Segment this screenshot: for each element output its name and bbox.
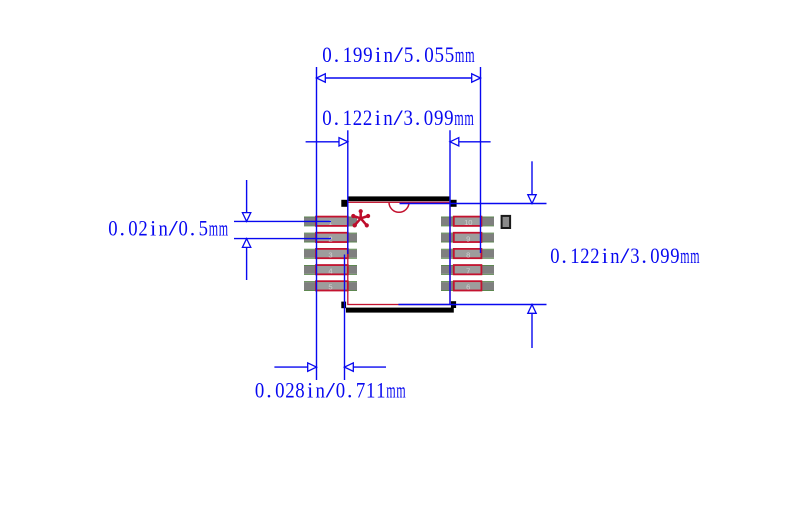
svg-text:i: i — [375, 106, 381, 130]
svg-text:.: . — [334, 106, 339, 130]
svg-text:9: 9 — [444, 106, 453, 130]
svg-text:n: n — [383, 106, 393, 130]
svg-text:8: 8 — [466, 250, 470, 259]
svg-text:0: 0 — [275, 379, 284, 403]
svg-text:n: n — [158, 217, 167, 241]
svg-text:5: 5 — [435, 43, 445, 67]
svg-text:m: m — [690, 244, 699, 268]
svg-text:5: 5 — [328, 283, 332, 292]
svg-text:9: 9 — [670, 244, 679, 268]
svg-text:.: . — [334, 43, 339, 67]
svg-text:2: 2 — [353, 106, 362, 130]
svg-text:1: 1 — [328, 218, 332, 227]
svg-text:n: n — [610, 244, 619, 268]
svg-text:9: 9 — [660, 244, 669, 268]
svg-text:1: 1 — [343, 43, 353, 67]
svg-text:9: 9 — [434, 106, 443, 130]
svg-text:2: 2 — [138, 217, 147, 241]
svg-text:1: 1 — [570, 244, 579, 268]
svg-text:0: 0 — [322, 43, 332, 67]
svg-text:0: 0 — [108, 217, 117, 241]
svg-text:m: m — [454, 106, 463, 130]
svg-text:0: 0 — [336, 379, 345, 403]
svg-text:5: 5 — [404, 43, 414, 67]
svg-text:m: m — [219, 217, 228, 241]
svg-text:.: . — [266, 379, 271, 403]
svg-text:0: 0 — [650, 244, 659, 268]
svg-text:1: 1 — [366, 379, 375, 403]
svg-text:m: m — [455, 43, 465, 67]
svg-text:m: m — [396, 379, 405, 403]
svg-text:3: 3 — [404, 106, 414, 130]
svg-text:2: 2 — [580, 244, 589, 268]
svg-text:m: m — [209, 217, 218, 241]
svg-text:9: 9 — [353, 43, 363, 67]
svg-text:m: m — [465, 43, 475, 67]
svg-text:1: 1 — [376, 379, 385, 403]
svg-text:9: 9 — [466, 234, 470, 243]
svg-text:.: . — [641, 244, 646, 268]
svg-text:5: 5 — [199, 217, 208, 241]
svg-text:m: m — [386, 379, 395, 403]
svg-text:.: . — [415, 43, 420, 67]
svg-text:7: 7 — [466, 267, 470, 276]
svg-text:2: 2 — [363, 106, 372, 130]
svg-text:i: i — [307, 379, 313, 403]
svg-text:10: 10 — [464, 218, 472, 227]
svg-text:m: m — [464, 106, 473, 130]
svg-text:.: . — [561, 244, 566, 268]
svg-text:.: . — [119, 217, 124, 241]
svg-text:1: 1 — [343, 106, 352, 130]
svg-text:2: 2 — [590, 244, 599, 268]
svg-text:m: m — [680, 244, 689, 268]
svg-text:3: 3 — [328, 250, 332, 259]
svg-text:.: . — [190, 217, 195, 241]
svg-text:.: . — [415, 106, 420, 130]
svg-text:i: i — [375, 43, 381, 67]
svg-text:0: 0 — [550, 244, 559, 268]
svg-text:4: 4 — [328, 267, 332, 276]
svg-text:8: 8 — [295, 379, 304, 403]
svg-text:0: 0 — [255, 379, 264, 403]
svg-text:9: 9 — [363, 43, 373, 67]
svg-text:0: 0 — [322, 106, 332, 130]
svg-text:2: 2 — [285, 379, 294, 403]
svg-text:0: 0 — [424, 43, 434, 67]
svg-text:5: 5 — [445, 43, 455, 67]
svg-text:0: 0 — [179, 217, 188, 241]
svg-text:n: n — [316, 379, 325, 403]
svg-text:7: 7 — [356, 379, 365, 403]
svg-text:.: . — [347, 379, 352, 403]
svg-text:i: i — [150, 217, 156, 241]
svg-text:6: 6 — [466, 283, 470, 292]
svg-text:i: i — [602, 244, 608, 268]
svg-text:3: 3 — [630, 244, 639, 268]
svg-text:n: n — [384, 43, 394, 67]
svg-text:0: 0 — [128, 217, 137, 241]
svg-text:0: 0 — [424, 106, 434, 130]
